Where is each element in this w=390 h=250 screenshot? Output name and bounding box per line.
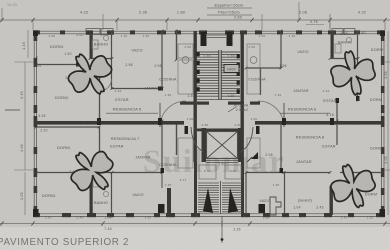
fan pinwheel bottom-left (71, 152, 113, 191)
counter coz7 (178, 138, 193, 168)
wall dorm5a bottom (36, 63, 80, 67)
label residencia7 (110, 136, 140, 149)
stair level label box (224, 65, 239, 73)
label residencia5 (106, 107, 158, 114)
top outer wall glazing (34, 31, 384, 34)
wall banho5 bottom (90, 58, 112, 60)
door jamb res8 (256, 126, 260, 134)
divider jamb a (97, 118, 101, 125)
door arc dorm7 (100, 154, 112, 166)
corner block top-left (33, 30, 38, 36)
wall banho5 right (111, 31, 113, 59)
window mullion top-left (86, 29, 113, 35)
counter coz8 (247, 138, 260, 168)
top dimension line (0, 19, 390, 21)
wall est8 v (336, 124, 338, 145)
planter right of stair (270, 197, 281, 215)
wall lav8 (284, 173, 286, 215)
left vert dim 1.45 (22, 30, 28, 58)
left lower vert dim (20, 172, 25, 215)
vestibule partition left (199, 165, 216, 179)
fan pinwheel top-left (68, 54, 111, 94)
stair end tick column left (197, 52, 200, 92)
dimension extension lines (33, 2, 385, 30)
stair tower jamb right (227, 32, 233, 46)
left outer wall glazing (34, 31, 36, 216)
elevator sill (206, 161, 238, 163)
wall row8 top (246, 172, 383, 174)
stair landing texts (187, 94, 234, 98)
counter coz5 lower (178, 60, 193, 94)
wall vard5 bottom (112, 87, 164, 91)
porch axis tick (221, 221, 223, 226)
top tick x262 (261, 14, 263, 30)
stair lower treads (198, 183, 242, 212)
door arc res6 (258, 101, 284, 127)
entrance axis line (221, 216, 223, 243)
top extension mark x330 (329, 14, 331, 28)
stair lower stringer (220, 181, 222, 214)
label residencia6 (280, 107, 330, 114)
counter coz6 (247, 44, 260, 94)
bottom dim ticks (0, 221, 386, 225)
door arc dorm5b (100, 79, 112, 91)
dimension tick marks (0, 18, 386, 22)
wall row7 top (36, 172, 162, 174)
banho6 fixtures (335, 37, 352, 53)
wall banho6 left (331, 31, 334, 59)
stair middle stringer (219, 50, 221, 100)
left party wall (35, 121, 184, 125)
right ext line y62 (384, 61, 390, 63)
sink coz6 (250, 57, 257, 64)
wall dorm7 right (98, 127, 102, 161)
bottom outer wall solid segments (33, 213, 385, 217)
bottom outer wall glazing (34, 214, 384, 217)
divider jamb d (282, 118, 286, 125)
wall junction tick marks (35, 30, 385, 174)
stair note box (207, 3, 252, 16)
right outer wall solid segments (381, 31, 385, 216)
wall banho6 right (357, 31, 359, 59)
bottom dimension line (0, 223, 390, 225)
wall banho6 bottom (331, 58, 358, 60)
corner block bottom-left (33, 209, 39, 217)
banho7 fixtures (93, 178, 109, 197)
door arc res5 (160, 101, 186, 127)
counter coz5 (178, 44, 193, 58)
wall dorm7 top (36, 126, 100, 128)
door leaf res5 (159, 103, 161, 127)
left outer wall solid segments (34, 31, 38, 216)
stair core left wall lower (194, 162, 197, 215)
elevator shaft wall right (238, 128, 243, 162)
sink coz5 (182, 57, 189, 64)
stair core right wall lower (241, 162, 244, 215)
wall coz5 (176, 31, 178, 60)
vestibule partition right (225, 165, 241, 179)
divider jamb b (158, 118, 162, 125)
vestibule texts (204, 169, 236, 173)
extra small dimension texts (35, 34, 374, 220)
stair landing line (197, 99, 240, 101)
scan noise (0, 0, 1, 1)
left vert dim line (5, 62, 34, 170)
porch jamb right (259, 204, 266, 213)
wall vard5 left (111, 59, 113, 89)
wall est6 v (336, 98, 340, 121)
wall coz7 (176, 125, 178, 156)
stair tower jamb left (201, 32, 207, 46)
top outer wall solid segments (33, 30, 385, 34)
level flag (251, 152, 258, 159)
stair core right wall (241, 31, 244, 162)
wall dorm6 left (356, 59, 360, 102)
divider jamb c (330, 118, 334, 125)
stair core left wall (194, 31, 197, 162)
wall estar7 v (161, 125, 165, 174)
stair end tick column right (237, 54, 240, 94)
door jamb res7 (185, 126, 189, 134)
banho5 fixtures (92, 35, 109, 49)
door arc res7 (191, 127, 204, 152)
corner block top-right (380, 30, 385, 36)
stair down arrow left (203, 188, 213, 213)
wall vard7 right (162, 173, 171, 216)
porch jamb left (158, 204, 165, 213)
door arc dorm8 (340, 173, 351, 184)
wall banho7 left (90, 173, 93, 215)
stair top window (207, 35, 226, 37)
wall dorm8 left (330, 186, 333, 215)
stair down arrow right (228, 188, 238, 213)
wall mid6 bottom (246, 67, 281, 69)
right vert dim line (384, 31, 388, 215)
fan pinwheel bottom-right (331, 165, 375, 208)
dim text 0.75 (306, 20, 324, 25)
lighter sheet margin below title rule (0, 227, 390, 250)
elevator cab box (207, 132, 238, 159)
wall coz6 (260, 68, 262, 95)
window mullion top-right (332, 29, 355, 35)
door arc res8 (240, 127, 253, 152)
wall mid6 (280, 31, 282, 68)
axis end dot (221, 238, 224, 241)
elevator shaft wall left (202, 128, 207, 162)
right ext line y170 (384, 169, 390, 171)
alcova note (228, 104, 249, 113)
label residencia8 (296, 135, 325, 140)
right outer wall glazing (382, 31, 384, 216)
wall dorm5b right (98, 64, 102, 121)
top tick x103 (102, 14, 104, 30)
top tick line left corner (1, 8, 3, 20)
wall banho7 right (111, 173, 113, 215)
wall hall8 v (280, 125, 284, 174)
door leaf res6 (283, 103, 285, 127)
elevator landing wall (197, 129, 243, 132)
corner block bottom-right (380, 209, 386, 217)
wall vard5 right (161, 31, 163, 89)
wall banho5 left (90, 31, 93, 59)
elevator X brace (207, 132, 238, 159)
fan pinwheel top-right (331, 51, 375, 95)
stair upper treads (197, 52, 240, 96)
wall vard8 left (245, 173, 247, 215)
right party wall (255, 121, 383, 125)
small dimension texts (38, 31, 365, 232)
hall wall below landing (180, 102, 260, 105)
